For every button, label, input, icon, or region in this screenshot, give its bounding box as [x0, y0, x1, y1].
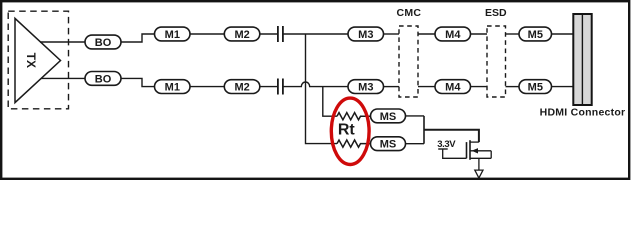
- wire 3.3V to gate: [443, 149, 467, 158]
- wire: triangle to BO (top): [40, 41, 85, 43]
- wire cap-M3 top with junction: [284, 33, 349, 35]
- svg-text:BO: BO: [95, 73, 112, 85]
- TX block dashed box: [8, 11, 68, 109]
- wire M1-M2 top: [190, 33, 224, 35]
- wire source to ground: [478, 158, 480, 170]
- svg-text:M1: M1: [165, 29, 180, 41]
- wire M2-cap top: [260, 33, 277, 35]
- ESD dashed box: [487, 26, 506, 97]
- svg-text:MS: MS: [380, 139, 397, 151]
- svg-text:M2: M2: [234, 29, 249, 41]
- M2 oval (bottom): [224, 80, 259, 94]
- join bar: [423, 116, 425, 144]
- svg-text:BO: BO: [95, 37, 112, 49]
- svg-text:ESD: ESD: [485, 7, 507, 19]
- svg-text:Rt: Rt: [338, 122, 356, 139]
- M5 oval (bottom): [519, 80, 552, 94]
- wire cap-M3 bottom with hop over vertical: [284, 82, 349, 87]
- wire jog BO to M1 (bottom): [121, 78, 155, 86]
- BO oval (top): [85, 35, 121, 49]
- wire join bar to transistor drain: [424, 130, 479, 142]
- wire M2-cap bottom: [260, 86, 277, 88]
- transistor Q1 (NMOS switch): [466, 142, 468, 158]
- MS oval (bottom): [371, 137, 406, 151]
- vertical wire V2: bottom line down to upper resistor: [323, 87, 337, 117]
- svg-text:M3: M3: [358, 82, 373, 94]
- BO oval (bottom): [85, 72, 121, 86]
- svg-text:M1: M1: [165, 82, 180, 94]
- svg-text:MS: MS: [380, 111, 397, 123]
- wires M3 to CMC box: [384, 33, 400, 35]
- M1 oval (top): [155, 27, 191, 41]
- M2 oval (top): [224, 27, 259, 41]
- M3 oval (top): [348, 27, 384, 41]
- wires M5 to connector: [552, 33, 574, 35]
- resistor Rt lower zigzag: [337, 140, 370, 147]
- svg-text:M5: M5: [528, 82, 543, 94]
- M4 oval (bottom): [435, 80, 471, 94]
- MS oval (top): [371, 109, 406, 123]
- border frame: [1, 1, 629, 179]
- wires M4 to ESD box: [471, 33, 488, 35]
- svg-text:TX: TX: [24, 53, 38, 68]
- M1 oval (bottom): [155, 80, 191, 94]
- svg-text:M4: M4: [445, 29, 461, 41]
- M3 oval (bottom): [348, 80, 384, 94]
- wires CMC to M4: [418, 33, 435, 35]
- svg-text:M5: M5: [528, 29, 543, 41]
- wires MS to join bar: [406, 115, 425, 117]
- ground: [475, 170, 483, 178]
- wire M1-M2 bottom: [190, 86, 224, 88]
- wire jog BO to M1 (top): [121, 34, 155, 42]
- wire: triangle to BO (bottom): [41, 77, 85, 79]
- svg-text:CMC: CMC: [396, 7, 421, 19]
- wires ESD to M5: [506, 33, 520, 35]
- capacitor C bottom: [277, 79, 279, 95]
- vertical wire V1: top line down to lower resistor: [306, 34, 338, 144]
- svg-text:HDMI Connector: HDMI Connector: [540, 107, 626, 119]
- capacitor C top: [277, 26, 279, 42]
- svg-text:M3: M3: [358, 29, 373, 41]
- transmitter TX triangle: [15, 18, 61, 102]
- resistor Rt upper zigzag: [337, 113, 370, 120]
- CMC dashed box: [399, 26, 418, 97]
- svg-text:M4: M4: [445, 82, 461, 94]
- M4 oval (top): [435, 27, 471, 41]
- M5 oval (top): [519, 27, 552, 41]
- svg-text:M2: M2: [234, 82, 249, 94]
- HDMI connector body: [573, 14, 591, 105]
- red highlight ellipse: [331, 98, 369, 164]
